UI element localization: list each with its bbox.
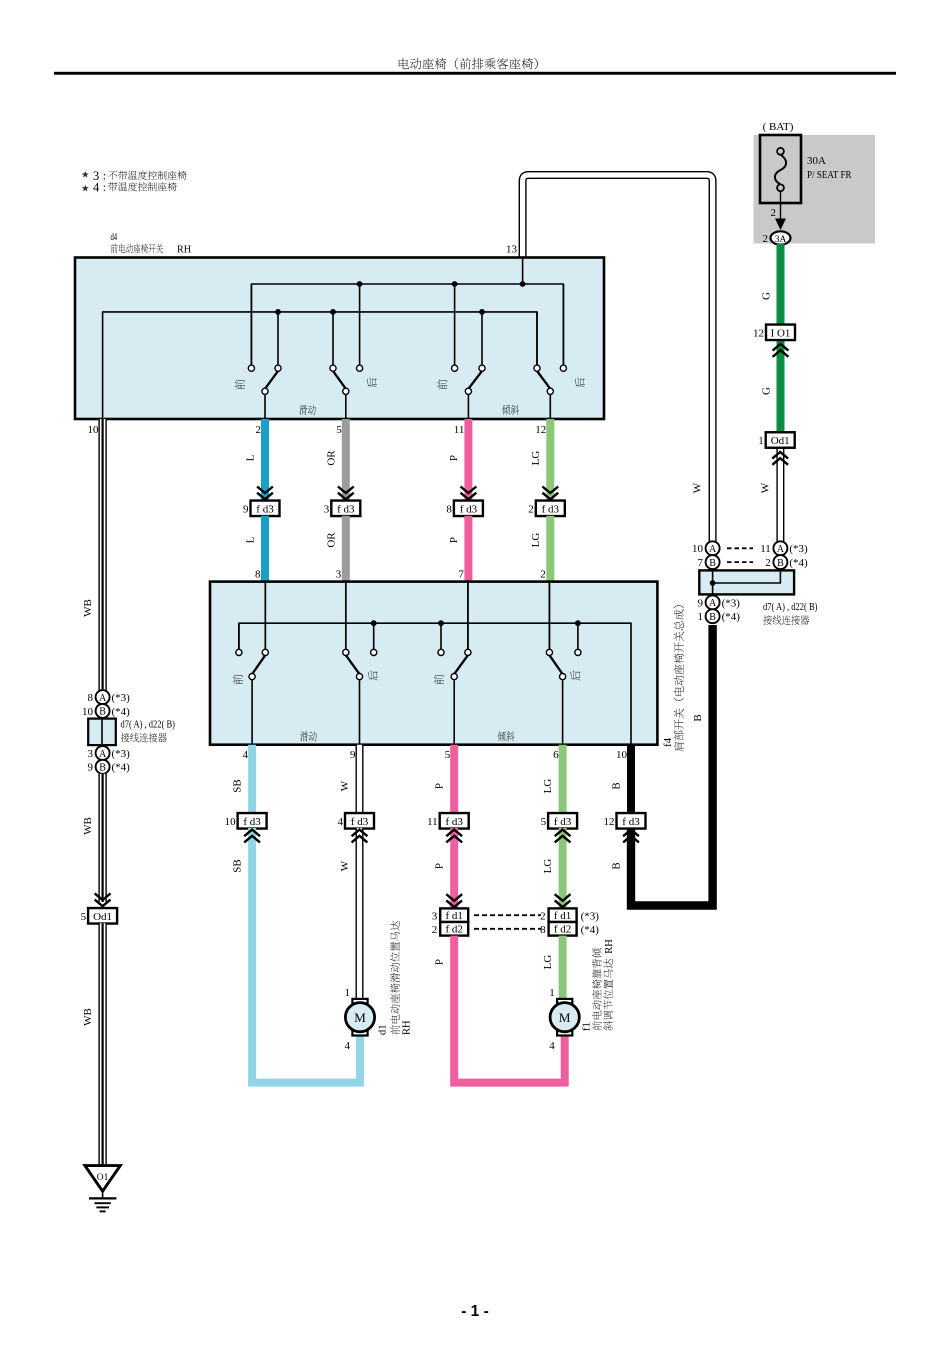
svg-text:3: 3: [432, 911, 438, 923]
fuse box gray block: [754, 135, 876, 244]
label 滑动: [299, 405, 307, 415]
svg-text:12: 12: [535, 424, 546, 436]
svg-text:12: 12: [753, 327, 764, 339]
connector fd3 pin 8: [454, 501, 483, 517]
switch d4 slide-forward (pin 2): [248, 284, 281, 419]
junction connector circle B pin 9 (*4): [88, 760, 131, 774]
note *4: [82, 185, 89, 192]
svg-text:B: B: [611, 862, 623, 869]
svg-text:30A: 30A: [807, 155, 826, 167]
svg-text:P: P: [448, 455, 460, 461]
junction connector circle B pin 10 (*4): [82, 704, 130, 718]
label 倾斜: [502, 405, 510, 415]
svg-text:10: 10: [82, 706, 94, 718]
svg-text:d7( A) , d22( B): d7( A) , d22( B): [121, 720, 176, 731]
junction connector circle B pin 7: [698, 555, 720, 569]
svg-text:A: A: [99, 693, 107, 704]
junction connector circle A pin 11 (*3): [760, 541, 808, 555]
svg-text:f d3: f d3: [554, 816, 572, 828]
connector fd3 pin 11: [440, 813, 469, 829]
label 前 (tilt): [437, 379, 447, 389]
f4 pin2 internal stub: [548, 582, 550, 650]
svg-text:3: 3: [88, 748, 94, 760]
f4 pin8 internal stub: [264, 582, 266, 650]
node bus2 x333: [330, 309, 336, 315]
svg-text:LG: LG: [530, 533, 542, 548]
svg-text:W: W: [339, 860, 351, 871]
svg-text:(*4): (*4): [581, 924, 600, 936]
chevron above fd3: [257, 487, 273, 500]
wire B from fd3 right and up to junction connector B pin 1: [631, 625, 713, 906]
svg-text:8: 8: [446, 503, 452, 515]
node bus1 x359.6: [357, 281, 363, 287]
node f4 bus x373.7: [371, 620, 377, 626]
f4 pin7 internal stub: [467, 582, 469, 650]
connector oval 3A pin 2: [763, 231, 791, 245]
node bus1 x454.6: [452, 281, 458, 287]
chevron below fd3 B: [623, 830, 639, 843]
svg-text:9: 9: [350, 749, 356, 761]
svg-text:8: 8: [88, 692, 94, 704]
wire WB from d7 to connector Od1 pin 5: [98, 774, 106, 902]
label 前 (slide): [235, 379, 245, 389]
connector fd2 pin 8 (*4): [540, 922, 599, 936]
switch box f4: [210, 582, 657, 745]
node f4 bus x577.9: [575, 620, 581, 626]
wire W from f4 to fd3: [356, 745, 364, 814]
chevron above fd3: [461, 487, 477, 500]
svg-text:1: 1: [345, 987, 351, 999]
connector fd3 pin 10: [238, 813, 267, 829]
connector fd3 pin 4: [345, 813, 374, 829]
svg-text:f d1: f d1: [445, 910, 462, 922]
connector fd2 pin 2: [432, 922, 469, 936]
svg-text:5: 5: [541, 816, 547, 828]
junction connector circle A pin 10: [692, 541, 720, 555]
dashed link B-B: [727, 561, 753, 563]
svg-text:f d3: f d3: [622, 816, 640, 828]
svg-text:2: 2: [771, 207, 777, 219]
label 后 (tilt): [575, 377, 585, 387]
svg-text:10: 10: [88, 424, 100, 436]
svg-text:5: 5: [445, 749, 451, 761]
dashed link fd1-fd1: [474, 914, 541, 916]
junction connector circle B pin 2 (*4): [765, 555, 808, 569]
svg-text:f d3: f d3: [542, 503, 560, 515]
svg-text:(*4): (*4): [789, 557, 808, 569]
svg-text:4: 4: [549, 1040, 555, 1052]
svg-text:3: 3: [336, 569, 342, 581]
svg-text:(*3): (*3): [722, 597, 741, 609]
svg-text:f d3: f d3: [445, 816, 463, 828]
title rule: [54, 72, 896, 75]
svg-text:f d3: f d3: [351, 816, 369, 828]
wire W from Od1 down to junction connector circle A pin 11: [776, 444, 784, 542]
dashed link fd2-fd2: [474, 928, 541, 930]
svg-text:f d3: f d3: [243, 816, 261, 828]
label 倾斜 (f4): [498, 731, 506, 741]
svg-text:8: 8: [255, 569, 261, 581]
svg-text:A: A: [709, 598, 717, 609]
switch d4 slide-back (pin 5): [330, 284, 363, 419]
svg-text:B: B: [709, 558, 716, 569]
svg-text:f4: f4: [662, 737, 674, 747]
svg-text:f1: f1: [582, 1022, 593, 1031]
svg-text:L: L: [245, 454, 257, 461]
svg-text:10: 10: [225, 816, 237, 828]
svg-text::: :: [103, 180, 106, 194]
svg-text:f d1: f d1: [554, 910, 571, 922]
connector IO1 pin 12: [766, 325, 795, 341]
svg-text:12: 12: [604, 816, 615, 828]
svg-text:d1: d1: [377, 1025, 388, 1036]
svg-text:2: 2: [540, 911, 546, 923]
ground O1 triangle: [85, 1166, 120, 1192]
chevron below fd3 P: [446, 830, 462, 843]
chevron below fd3 W: [352, 830, 368, 843]
junction connector circle A pin 3 (*3): [88, 746, 131, 760]
d4 pin13 internal stub: [522, 258, 524, 285]
junction connector circle A pin 8 (*3): [88, 690, 131, 704]
chevron above fd1 (*3): [555, 894, 571, 907]
wire L from fd3 to f4 pin 8: [261, 516, 269, 582]
chevron below IO1: [773, 344, 789, 357]
junction connector circle B pin 1 (*4): [698, 609, 741, 623]
wire P from fd3 to f4 pin 7: [464, 516, 472, 582]
svg-text:3: 3: [324, 503, 330, 515]
chevron above fd3: [542, 487, 558, 500]
svg-text:A: A: [777, 544, 785, 555]
svg-text:OR: OR: [325, 532, 337, 548]
connector fd1 pin 3: [432, 908, 469, 922]
node bus2 x278: [275, 309, 281, 315]
svg-text:WB: WB: [82, 599, 94, 617]
svg-text:I O1: I O1: [771, 327, 791, 339]
switch box d4: [75, 258, 604, 420]
dashed link A-A: [727, 547, 753, 549]
svg-text:RH: RH: [177, 245, 191, 256]
wire W from fd3 down to motor d1 pin 1: [356, 828, 364, 1000]
svg-text:(*4): (*4): [112, 706, 131, 718]
svg-text:4: 4: [338, 816, 344, 828]
label 后 (slide): [367, 377, 377, 387]
wire LG from f4 to fd3: [559, 745, 567, 814]
svg-text:9: 9: [698, 597, 704, 609]
svg-text:G: G: [761, 387, 773, 395]
ground symbol: [89, 1191, 116, 1211]
svg-text:WB: WB: [82, 1008, 94, 1026]
switch f4 tilt-forward (pin 5): [438, 582, 471, 745]
svg-text:M: M: [354, 1010, 366, 1025]
svg-text:B: B: [709, 612, 716, 623]
junction connector d7(A) d22(B) box: [88, 719, 116, 746]
svg-text:(*3): (*3): [112, 748, 131, 760]
wire LG from d4 pin 12 to fd3: [546, 419, 554, 501]
svg-text:RH: RH: [402, 1020, 413, 1035]
svg-text:OR: OR: [325, 450, 337, 466]
svg-text:B: B: [611, 782, 623, 789]
svg-text:4: 4: [345, 1040, 351, 1052]
svg-text:( BAT): ( BAT): [763, 121, 794, 133]
wire P from d4 pin 11 to fd3: [464, 419, 472, 501]
f4 pin3 internal stub: [345, 582, 347, 650]
chevron below fd3 SB: [244, 830, 260, 843]
svg-text:(*3): (*3): [789, 543, 808, 555]
label 前 (f4 tilt): [434, 674, 444, 684]
node bus2 x482: [479, 309, 485, 315]
switch f4 slide-back (pin 9): [343, 582, 377, 745]
svg-text:M: M: [559, 1010, 571, 1025]
svg-text:(*3): (*3): [112, 692, 131, 704]
svg-text:7: 7: [458, 569, 464, 581]
wire LG fd3 to fd1: [559, 828, 567, 908]
svg-text:2: 2: [528, 503, 534, 515]
switch d4 tilt-forward (pin 11): [452, 284, 486, 419]
wire L from d4 pin 2 to fd3: [261, 419, 269, 501]
motor f1 label f1 前电动座椅靠背倾斜调节位置马达 RH: [582, 939, 616, 1031]
svg-text:(*4): (*4): [722, 611, 741, 623]
svg-text:f d3: f d3: [337, 503, 355, 515]
svg-text:SB: SB: [232, 779, 244, 792]
svg-text:B: B: [99, 763, 106, 774]
svg-text:d7( A) , d22( B): d7( A) , d22( B): [763, 602, 818, 613]
wire P from fd2 to motor f1 pin 4: [454, 936, 565, 1083]
svg-text:P: P: [434, 959, 446, 965]
svg-text:W: W: [760, 482, 772, 493]
f4 internal bus: [239, 623, 631, 745]
svg-text:B: B: [777, 558, 784, 569]
svg-text:8: 8: [540, 924, 546, 936]
svg-text:5: 5: [336, 424, 342, 436]
svg-text:LG: LG: [542, 955, 554, 970]
connector Od1 pin 5: [88, 908, 117, 924]
svg-text:G: G: [761, 292, 773, 300]
svg-text:f d3: f d3: [256, 503, 274, 515]
svg-text:A: A: [99, 749, 107, 760]
svg-text:RH: RH: [604, 939, 615, 954]
svg-text:B: B: [99, 707, 106, 718]
svg-text:B: B: [692, 714, 704, 721]
label 后 (f4 slide): [368, 670, 378, 680]
wire WB from Od1 to ground: [98, 923, 106, 1166]
chevron below Od1: [772, 452, 788, 465]
svg-text:3A: 3A: [775, 235, 787, 245]
svg-text:d4: d4: [111, 232, 118, 243]
svg-text:9: 9: [88, 762, 94, 774]
svg-text:LG: LG: [530, 451, 542, 466]
label 后 (f4 tilt): [570, 670, 580, 680]
chevron above fd1: [446, 894, 462, 907]
svg-text:1: 1: [758, 435, 764, 447]
svg-text:SB: SB: [232, 859, 244, 872]
svg-text:A: A: [709, 544, 717, 555]
note *3: [82, 171, 89, 178]
switch f4 slide-forward (pin 4): [236, 582, 269, 745]
switch d4 tilt-back (pin 12): [534, 284, 567, 419]
svg-text:f d3: f d3: [460, 503, 478, 515]
connector fd3 pin 5: [548, 813, 577, 829]
d4 internal bus 1: [251, 284, 563, 365]
wire LG from fd1 to motor f1 pin 1: [559, 936, 567, 1000]
chevron below fd3 LG: [555, 830, 571, 843]
chevron above Od1: [95, 893, 111, 906]
chevron above fd3: [338, 487, 354, 500]
wire LG from fd3 to f4 pin 2: [546, 516, 554, 582]
svg-text:Od1: Od1: [771, 435, 790, 447]
svg-text:2: 2: [765, 557, 771, 569]
svg-text:L: L: [245, 536, 257, 543]
svg-text:1: 1: [549, 987, 555, 999]
connector Od1 pin 1: [766, 432, 795, 448]
svg-text:LG: LG: [542, 779, 554, 794]
svg-text:10: 10: [692, 543, 704, 555]
svg-text:W: W: [692, 482, 704, 493]
page number: [0, 1303, 950, 1321]
svg-text:O1: O1: [97, 1173, 109, 1183]
svg-text:f d2: f d2: [554, 924, 571, 936]
svg-text:9: 9: [243, 503, 249, 515]
connector fd3 pin 3: [331, 501, 360, 517]
node on bus1 at pin13: [520, 281, 526, 287]
wire SB from f4 to fd3: [248, 745, 256, 814]
svg-text:f d2: f d2: [445, 924, 462, 936]
motor d1: [345, 999, 374, 1036]
wire P from f4 to fd3: [450, 745, 458, 814]
wire WB from d4 pin 10 to junction connector d7 circle A: [98, 419, 106, 690]
switch f4 tilt-back (pin 6): [546, 582, 581, 745]
svg-text:W: W: [339, 780, 351, 791]
junction connector d7(A) d22(B) box right: [699, 570, 794, 594]
node f4 bus x441: [438, 620, 444, 626]
svg-text:2: 2: [763, 233, 769, 245]
wire SB from fd3 down to motor d1 pin 4: [252, 828, 360, 1083]
connector fd3 pin 2: [536, 501, 565, 517]
wire OR from fd3 to f4 pin 3: [342, 516, 350, 582]
title 电动座椅（前排乘客座椅）: [399, 58, 409, 69]
connector fd3 pin 9: [251, 501, 280, 517]
svg-text:7: 7: [698, 557, 704, 569]
svg-text:2: 2: [540, 569, 546, 581]
wire from fuse pin 2 with arrow: [771, 191, 787, 230]
svg-text:LG: LG: [542, 859, 554, 874]
svg-text:WB: WB: [82, 817, 94, 835]
wire W from d4 pin 13 up and over to junction connector circle A pin 10: [523, 175, 713, 542]
svg-text:1: 1: [698, 611, 704, 623]
svg-text:2: 2: [256, 424, 262, 436]
svg-text:11: 11: [454, 424, 465, 436]
wire B from f4 to fd3: [627, 745, 635, 814]
svg-text:10: 10: [616, 749, 628, 761]
connector fd3 pin 12: [617, 813, 646, 829]
junction connector circle A pin 9 (*3): [698, 595, 741, 609]
motor d1 label d1 前电动座椅滑动位置马达 RH: [377, 921, 412, 1035]
svg-text:(*3): (*3): [581, 911, 600, 923]
d4 internal bus 2: [103, 312, 537, 419]
motor f1: [550, 999, 579, 1036]
svg-text:2: 2: [432, 924, 438, 936]
svg-text:Od1: Od1: [93, 911, 112, 923]
svg-text:11: 11: [427, 816, 438, 828]
svg-text:P: P: [448, 537, 460, 543]
svg-text:11: 11: [760, 543, 771, 555]
svg-text:(*4): (*4): [112, 762, 131, 774]
wire P fd3 to fd1: [450, 828, 458, 908]
svg-text:4: 4: [93, 181, 100, 195]
wire G from fuse 3A through IO1 to Od1: [777, 244, 785, 436]
fuse 30A P/SEAT FR: [760, 135, 801, 203]
svg-text:P: P: [434, 863, 446, 869]
svg-text:P/ SEAT FR: P/ SEAT FR: [807, 169, 852, 181]
label 滑动 (f4): [300, 731, 308, 741]
svg-text:4: 4: [243, 749, 249, 761]
connector fd1 pin 2 (*3): [540, 908, 599, 922]
label 前 (f4 slide): [233, 674, 243, 684]
wire OR from d4 pin 5 to fd3: [342, 419, 350, 501]
svg-text:5: 5: [81, 911, 87, 923]
svg-text:6: 6: [553, 749, 559, 761]
svg-text:P: P: [434, 783, 446, 789]
svg-text:13: 13: [506, 244, 518, 256]
